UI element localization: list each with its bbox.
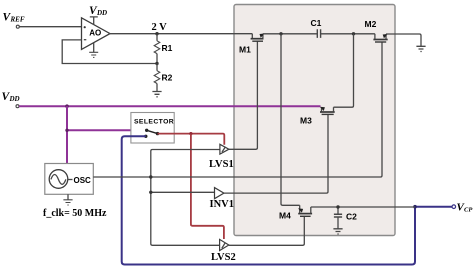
svg-text:M2: M2 — [365, 19, 377, 29]
ground below C2 — [333, 229, 342, 234]
svg-text:DD: DD — [96, 9, 107, 17]
node junction VCP/blue — [413, 205, 417, 209]
svg-text:R2: R2 — [162, 73, 173, 83]
node junction C1/M3 — [352, 32, 355, 35]
node junction clk/OSC — [149, 175, 152, 178]
node VREF terminal — [16, 25, 19, 28]
level shifter LVS2 — [220, 239, 229, 250]
svg-text:M4: M4 — [279, 211, 291, 221]
op-amp ground — [89, 42, 98, 57]
svg-text:M3: M3 — [300, 116, 312, 126]
node junction C2/VCP line — [336, 205, 339, 208]
op-amp VDD supply stub — [90, 17, 98, 25]
svg-text:LVS2: LVS2 — [211, 252, 236, 263]
svg-text:SELECTOR: SELECTOR — [134, 119, 174, 126]
inverter INV1 — [215, 188, 224, 199]
wire VDD branch to selector (purple) — [67, 129, 147, 131]
wire M3 drain up to C1/M2 node — [334, 34, 354, 107]
svg-text:OSC: OSC — [74, 176, 92, 185]
svg-text:LVS1: LVS1 — [209, 159, 234, 170]
svg-text:M1: M1 — [239, 45, 251, 55]
wire VDD drop to OSC (purple) — [66, 106, 68, 163]
node junction VDD/OSC branch — [65, 104, 69, 108]
wire LVS1 output to M1 gate — [229, 41, 258, 149]
svg-text:CP: CP — [464, 207, 473, 214]
node junction clk/INV1 — [149, 191, 152, 194]
capacitor C1 — [317, 29, 375, 38]
ground below R2 — [152, 92, 161, 97]
transistor M1 — [251, 34, 265, 42]
svg-text:AO: AO — [89, 29, 101, 38]
selector switch lever — [147, 130, 158, 133]
svg-text:DD: DD — [9, 95, 20, 103]
svg-text:C1: C1 — [311, 18, 322, 28]
svg-text:R1: R1 — [162, 43, 173, 53]
resistor R1 — [154, 34, 160, 64]
resistor R2 — [154, 64, 160, 92]
wire op-amp feedback to R1/R2 tap — [62, 40, 157, 64]
node VDD label left — [2, 91, 20, 103]
svg-text:2 V: 2 V — [152, 22, 168, 33]
wire op-amp output 2V rail — [109, 33, 252, 35]
op-amp inverting input marker — [84, 39, 87, 41]
wire LVS2 output to M4 gate — [229, 216, 304, 245]
transistor M4 — [298, 205, 312, 216]
node VCP terminal — [452, 205, 456, 209]
node junction red T — [189, 132, 192, 135]
wire selector to VCP loop (blue) — [122, 136, 452, 264]
selector throw node VDD — [145, 129, 148, 132]
transistor M3 — [320, 107, 335, 115]
node junction R1/R2 feedback tap — [155, 62, 158, 65]
wire M1 drain column down to M4 — [281, 34, 300, 206]
capacitor C2 — [334, 207, 342, 229]
oscillator circle symbol — [49, 170, 68, 189]
node junction M1/M4 column — [279, 32, 282, 35]
wire M1 drain to C1 — [263, 33, 317, 35]
selector box — [131, 113, 174, 144]
svg-text:C2: C2 — [346, 212, 357, 222]
svg-text:f_clk= 50 MHz: f_clk= 50 MHz — [43, 208, 107, 219]
wire selector to LVS1 supply (red) — [158, 134, 225, 145]
wire clock bus vertical — [151, 150, 220, 246]
node junction 2V/R1 — [155, 32, 158, 35]
svg-text:INV1: INV1 — [210, 199, 235, 210]
op-amp VDD label — [89, 5, 107, 17]
selector throw node VCP — [144, 135, 147, 138]
wire clock to INV1 — [151, 191, 215, 193]
wire red branch to LVS2 supply — [191, 134, 224, 239]
ground at M2 drain — [416, 46, 425, 51]
node VDD terminal — [16, 105, 19, 108]
oscillator OSC box — [45, 164, 94, 195]
node VREF label — [3, 12, 25, 24]
svg-text:REF: REF — [10, 15, 25, 23]
wire M2 drain to ground — [386, 34, 421, 46]
transistor M2 — [373, 34, 387, 42]
op-amp AO — [82, 18, 111, 50]
wire INV1 output to M3 gate — [224, 114, 328, 193]
selector common node — [156, 132, 159, 135]
wire VDD rail to M3 (purple) — [19, 105, 321, 107]
level shifter LVS1 — [220, 144, 229, 154]
node VCP label — [457, 202, 474, 214]
wire VREF to op-amp — [19, 26, 81, 28]
ground below OSC — [63, 194, 72, 205]
node junction VDD branch/selector — [65, 129, 68, 132]
wire OSC clock line to M2 gate — [93, 42, 382, 177]
wire M4 drain to VCP — [311, 206, 415, 208]
op-amp non-inverting input marker — [84, 26, 86, 28]
charge-pump block boundary box — [234, 5, 395, 236]
